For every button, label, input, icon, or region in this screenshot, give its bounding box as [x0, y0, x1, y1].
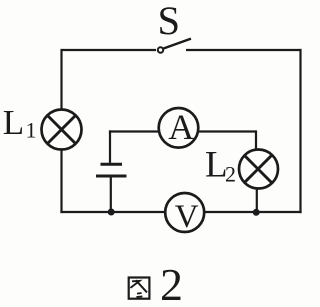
- svg-text:L: L: [3, 103, 24, 142]
- capacitor C top plate: [101, 163, 123, 166]
- wire left upper (to L1): [60, 49, 62, 110]
- ammeter A: [159, 107, 199, 148]
- svg-text:2: 2: [160, 259, 183, 307]
- svg-text:A: A: [168, 107, 194, 147]
- svg-text:1: 1: [26, 118, 37, 143]
- lamp L2: [239, 150, 278, 189]
- junction dot (capacitor / bottom wire): [108, 209, 115, 216]
- wire top-left segment: [62, 49, 157, 51]
- label L1: [3, 103, 37, 143]
- capacitor top lead: [109, 130, 111, 163]
- wire L2 branch lower: [256, 188, 258, 213]
- wire top-right segment: [186, 49, 301, 51]
- wire right side: [299, 49, 301, 213]
- wire bottom right segment: [204, 211, 302, 213]
- svg-text:V: V: [175, 199, 199, 235]
- capacitor bottom lead: [110, 177, 112, 212]
- svg-text:2: 2: [225, 162, 236, 187]
- lamp L1: [42, 110, 82, 150]
- wire L2 branch upper: [255, 130, 257, 150]
- wire inner top (branch with ammeter): [109, 130, 256, 132]
- wire bottom left segment: [60, 211, 165, 213]
- label L2: [205, 144, 236, 186]
- caption character 图: [129, 278, 150, 299]
- voltmeter V: [165, 193, 204, 235]
- svg-text:S: S: [158, 0, 181, 43]
- junction dot (L2 / bottom wire): [253, 209, 260, 216]
- capacitor C bottom plate: [96, 175, 127, 178]
- wire left lower (L1 to bottom): [60, 150, 62, 214]
- switch S: [158, 39, 191, 53]
